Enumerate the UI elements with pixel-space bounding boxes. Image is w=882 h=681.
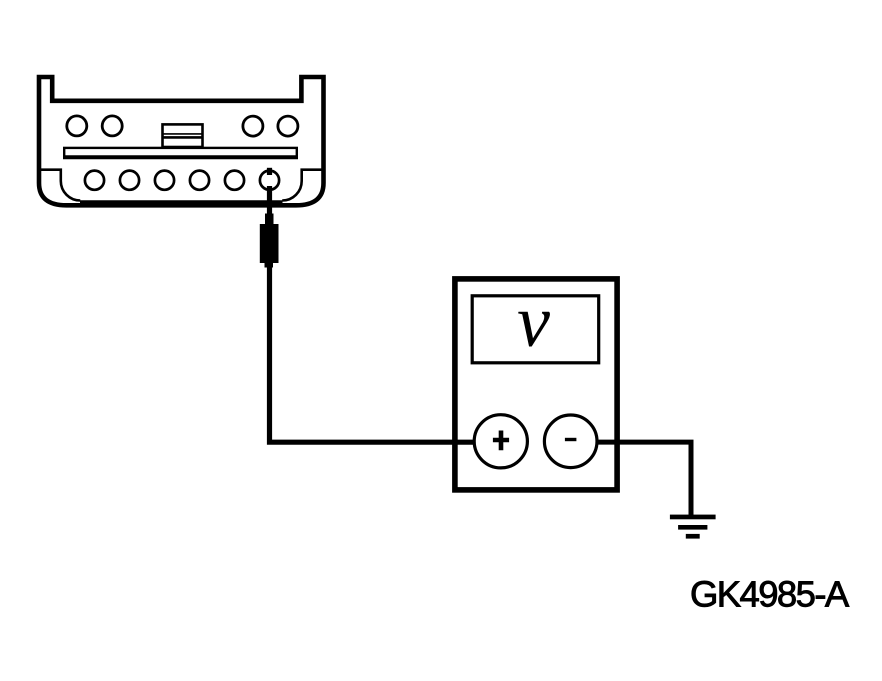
connector bottom wall thick band [80,200,283,207]
cavity pin 9 bottom row [225,171,244,190]
voltmeter positive terminal [474,415,527,468]
voltmeter display window [472,296,599,363]
test probe neck [265,214,274,226]
connector inner shelf left [41,170,80,201]
cavity pin 7 bottom row [155,171,174,190]
positive terminal plus sign [493,431,509,451]
test probe tail [265,263,274,268]
ground symbol bar 3 [686,534,700,539]
cavity pin 5 bottom row [85,171,104,190]
cavity pin 6 bottom row [120,171,139,190]
cavity pin 1 top row [67,116,87,136]
negative terminal minus sign [565,438,577,441]
voltmeter case [455,279,617,490]
connector center bar bottom thick edge [63,155,298,159]
cavity pin 3 top row [243,116,263,136]
voltmeter negative terminal [544,415,597,468]
cavity pin 8 bottom row [190,171,209,190]
test probe body [260,224,279,263]
wire from negative terminal to ground [597,442,691,515]
connector housing outer outline [39,77,324,205]
connector inner shelf right [282,170,321,201]
connector key tab inner line upper [163,133,203,135]
probe tip stub in pin 10 [267,168,272,175]
cavity pin 10 bottom row (probed) [260,171,279,190]
cavity pin 2 top row [102,116,122,136]
connector key tab inner line lower [163,136,203,139]
ground symbol bar 2 [678,525,707,530]
ground symbol bar 1 [670,515,716,520]
svg-text:GK4985-A: GK4985-A [690,574,850,615]
svg-text:ν: ν [517,281,550,363]
probe lead wire from pin to voltmeter positive terminal [270,186,476,442]
cavity pin 4 top row [278,116,298,136]
connector key tab rectangle [163,124,203,147]
connector center bar [64,148,297,158]
